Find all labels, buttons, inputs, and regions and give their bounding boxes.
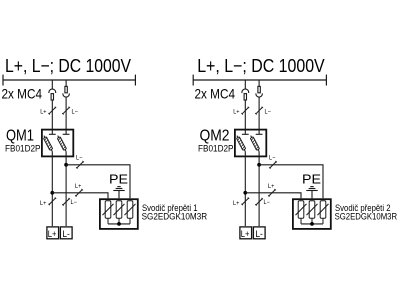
wire L- drop from bus: [65, 80, 67, 86]
svg-text:L+, L−; DC 1000V: L+, L−; DC 1000V: [5, 56, 132, 76]
varistor 2: [114, 201, 125, 224]
varistor 3: [125, 201, 136, 224]
surge protector F1 box: [100, 199, 138, 229]
wire L- to switch: [65, 97, 67, 129]
breaker QM2 box: [235, 130, 266, 157]
wire L- branch to SPD: [259, 165, 323, 199]
MC4 connector X4 male: [256, 86, 262, 97]
surge protector F2 box: [293, 199, 331, 229]
wire L- branch to SPD: [66, 165, 130, 199]
terminal L+: [47, 227, 59, 239]
junction node L-: [64, 163, 68, 167]
terminal L-: [253, 227, 265, 239]
disconnect point L- branch: [76, 161, 84, 169]
svg-text:L−: L−: [264, 200, 271, 206]
QM2 wire into pole 1: [244, 129, 246, 134]
MC4 connector X2 male: [63, 86, 69, 97]
svg-text:L−: L−: [265, 109, 272, 115]
svg-text:L+: L+: [40, 109, 47, 115]
junction node L-: [257, 163, 261, 167]
MC4 connector X1 female: [49, 89, 56, 100]
svg-text:L−: L−: [72, 109, 79, 115]
wire L- down from QM1: [65, 152, 67, 227]
disconnect point L- top: [255, 107, 263, 115]
svg-text:L+: L+: [48, 229, 57, 239]
QM1 wire into pole 1: [51, 129, 53, 134]
disconnect point L+ top: [241, 107, 249, 115]
wire L+ down from QM1: [51, 152, 53, 227]
wire L+ drop from bus: [244, 80, 246, 90]
bus line 2: [193, 75, 326, 86]
svg-text:L+: L+: [233, 201, 240, 207]
QM1 wire into pole 2: [65, 129, 67, 134]
svg-text:L+: L+: [75, 184, 82, 190]
wire L+ down from QM2: [244, 152, 246, 227]
wire PE to SPD: [311, 191, 313, 199]
svg-text:L−: L−: [269, 156, 276, 162]
disconnect point L+ branch: [268, 189, 276, 197]
svg-text:L-: L-: [255, 229, 263, 239]
SPD common node: [310, 222, 314, 226]
ground PE symbol: [306, 187, 317, 191]
svg-text:L+: L+: [268, 184, 275, 190]
svg-text:SG2EDGK10M3R: SG2EDGK10M3R: [335, 210, 398, 221]
QM2 pole 1: [237, 134, 249, 151]
QM2 wire into pole 2: [258, 129, 260, 134]
bus line 1: [3, 75, 135, 86]
SPD common bus: [108, 223, 130, 225]
wire L+ to switch: [51, 100, 53, 129]
QM1 pole 1: [44, 134, 56, 151]
wire PE to SPD: [118, 191, 120, 199]
breaker QM1 box: [42, 130, 73, 157]
SPD common bus: [301, 223, 323, 225]
wire L+ branch to SPD: [245, 193, 301, 199]
MC4 connector X3 female: [242, 89, 249, 100]
wire L+ drop from bus: [51, 80, 53, 90]
disconnect point L+ top: [48, 107, 56, 115]
svg-text:2x MC4: 2x MC4: [2, 87, 43, 102]
QM2 pole 2: [250, 134, 262, 151]
svg-text:PE: PE: [302, 171, 321, 186]
disconnect point L- top: [62, 107, 70, 115]
wire L+ to switch: [244, 100, 246, 129]
disconnect point L- bottom: [255, 198, 263, 206]
svg-text:L+: L+: [241, 229, 250, 239]
terminal L+: [240, 227, 252, 239]
svg-text:FB01D2P: FB01D2P: [198, 143, 234, 153]
junction node L+: [243, 191, 247, 195]
varistor 2: [307, 201, 318, 224]
wire L+ branch to SPD: [52, 193, 108, 199]
disconnect point L+ branch: [75, 189, 83, 197]
svg-text:QM2: QM2: [200, 128, 230, 145]
wire L- to switch: [258, 97, 260, 129]
svg-text:L−: L−: [76, 156, 83, 162]
ground PE symbol: [113, 187, 124, 191]
svg-text:PE: PE: [109, 171, 128, 186]
terminal L-: [60, 227, 72, 239]
svg-text:QM1: QM1: [6, 128, 34, 145]
disconnect point L+ bottom: [241, 197, 249, 205]
disconnect point L+ bottom: [48, 197, 56, 205]
junction node L+: [50, 191, 54, 195]
disconnect point L- bottom: [62, 198, 70, 206]
varistor 1: [103, 201, 114, 224]
svg-text:L+: L+: [233, 109, 240, 115]
varistor 1: [296, 201, 307, 224]
SPD common node: [117, 222, 121, 226]
svg-text:SG2EDGK10M3R: SG2EDGK10M3R: [142, 210, 208, 221]
QM1 pole 2: [57, 134, 69, 151]
svg-text:FB01D2P: FB01D2P: [5, 143, 41, 153]
wire L- down from QM2: [258, 152, 260, 227]
svg-text:L+: L+: [40, 201, 47, 207]
wire L- drop from bus: [258, 80, 260, 86]
disconnect point L- branch: [269, 161, 277, 169]
svg-text:L-: L-: [62, 229, 70, 239]
svg-text:2x MC4: 2x MC4: [195, 87, 236, 102]
svg-text:L+, L−; DC 1000V: L+, L−; DC 1000V: [197, 56, 325, 76]
svg-text:L−: L−: [71, 200, 78, 206]
varistor 3: [318, 201, 329, 224]
